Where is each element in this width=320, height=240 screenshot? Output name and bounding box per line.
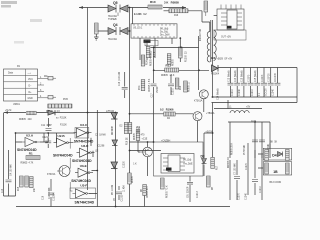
svg-text:C1CF30: C1CF30 [269, 73, 271, 82]
svg-text:05 58 WK: 05 58 WK [244, 144, 246, 155]
svg-text:Ds_DdL: Ds_DdL [160, 32, 169, 34]
svg-text:MG: MG [44, 76, 48, 78]
svg-text:C1210: C1210 [260, 186, 262, 193]
svg-text:R0805 1.5 K: R0805 1.5 K [149, 78, 151, 91]
svg-text:C1298: C1298 [98, 146, 105, 148]
svg-text:R0805 11: R0805 11 [188, 81, 190, 92]
svg-text:CCC30: CCC30 [266, 88, 268, 96]
svg-text:C4 100 WK: C4 100 WK [11, 164, 13, 176]
svg-text:U3-F: U3-F [80, 183, 87, 187]
svg-text:CCCF30: CCCF30 [275, 72, 277, 82]
svg-text:C1220A: C1220A [53, 192, 56, 201]
svg-text:C16: C16 [43, 195, 45, 200]
svg-text:+5v M: +5v M [5, 110, 11, 112]
svg-text:C17: C17 [152, 93, 154, 98]
svg-text:3 K R0805: 3 K R0805 [164, 1, 179, 5]
svg-text:U2.A: U2.A [26, 134, 34, 138]
svg-text:SN74HC04D: SN74HC04D [53, 153, 73, 157]
svg-text:C1210: C1210 [232, 89, 234, 96]
svg-text:C10 10 MK: C10 10 MK [49, 187, 51, 199]
svg-text:E-1208 0.2: E-1208 0.2 [134, 14, 147, 16]
svg-text:11 KM: 11 KM [124, 185, 126, 192]
svg-text:USB-U: USB-U [13, 104, 20, 106]
svg-text:C1240: C1240 [239, 89, 241, 96]
svg-text:C8 | 2200P: C8 | 2200P [188, 186, 190, 198]
svg-text:U2.B: U2.B [58, 134, 66, 138]
svg-text:R13: R13 [166, 64, 172, 68]
svg-text:TV35EB: TV35EB [108, 19, 117, 21]
svg-text:U3-E: U3-E [80, 164, 87, 168]
svg-text:SN74HC04D: SN74HC04D [72, 159, 92, 163]
svg-text:U4: U4 [167, 167, 171, 171]
svg-text:9R_(3d): 9R_(3d) [183, 160, 192, 162]
svg-text:R0805 240: R0805 240 [19, 119, 32, 121]
svg-text:Data: Data [8, 72, 14, 75]
svg-text:C2 18 MK: C2 18 MK [95, 135, 106, 137]
svg-text:R1208 22: R1208 22 [186, 51, 188, 62]
svg-text:C7 100 WK: C7 100 WK [235, 163, 237, 175]
svg-text:U6: U6 [144, 39, 148, 43]
svg-text:C1CF3: C1CF3 [262, 74, 264, 82]
svg-text:BK 5K: BK 5K [270, 142, 278, 144]
svg-text:C16 | 100 AM: C16 | 100 AM [118, 72, 121, 86]
svg-text:R1: R1 [29, 152, 33, 156]
svg-text:B6: B6 [211, 56, 215, 60]
svg-text:D4: D4 [272, 154, 276, 158]
svg-text:Q5: Q5 [113, 1, 118, 5]
svg-text:R16: R16 [174, 15, 179, 17]
svg-text:C15 (Weld): C15 (Weld) [255, 70, 257, 82]
svg-text:Yes_DdE: Yes_DdE [183, 164, 193, 166]
svg-text:1 K: 1 K [133, 164, 137, 166]
svg-text:R7C: R7C [139, 85, 141, 90]
svg-text:R1H: R1H [147, 60, 149, 65]
svg-text:US_D0.1: US_D0.1 [133, 28, 143, 30]
svg-text:BKJ CONN: BKJ CONN [270, 182, 282, 184]
svg-text:R0805 470: R0805 470 [147, 186, 149, 198]
svg-text:C1240: C1240 [272, 89, 274, 96]
svg-text:R0805 4.7K: R0805 4.7K [21, 163, 34, 165]
svg-text:C1220: C1220 [122, 194, 124, 201]
svg-text:C1210: C1210 [173, 88, 175, 95]
svg-text:C1240: C1240 [246, 193, 248, 200]
svg-text:+TB02A: +TB02A [206, 112, 215, 115]
svg-text:R0805 25 K: R0805 25 K [161, 75, 175, 77]
svg-text:KT315A: KT315A [47, 173, 56, 176]
svg-text:1520P: 1520P [157, 86, 159, 93]
svg-text:R0805 TC K: R0805 TC K [167, 185, 169, 198]
svg-text:C15 (Weld): C15 (Weld) [242, 70, 244, 82]
svg-text:+5V: +5V [246, 107, 251, 109]
svg-text:SN74HC04D: SN74HC04D [75, 200, 95, 204]
svg-text:KT361A: KT361A [194, 100, 203, 103]
svg-text:C1270: C1270 [246, 163, 248, 170]
svg-text:su F313K: su F313K [56, 118, 67, 120]
svg-text:C13: C13 [2, 188, 4, 193]
svg-text:C12 (Weld): C12 (Weld) [228, 70, 230, 82]
svg-text:C1210: C1210 [252, 89, 254, 96]
svg-text:DR/DNB: DR/DNB [112, 126, 114, 135]
svg-text:R0805: R0805 [132, 176, 134, 183]
svg-text:INDUCTOR: INDUCTOR [200, 29, 202, 41]
svg-text:Dm_DdN: Dm_DdN [160, 35, 170, 37]
svg-text:F313K: F313K [60, 125, 67, 127]
svg-text:—○: —○ [28, 72, 32, 75]
svg-text:C14 (Weld): C14 (Weld) [218, 88, 220, 100]
svg-text:OUT +2N: OUT +2N [221, 37, 231, 39]
svg-text:C1270: C1270 [239, 193, 241, 200]
svg-text:C13 (Weld): C13 (Weld) [235, 70, 237, 82]
svg-text:PCB: PCB [63, 99, 68, 101]
svg-text:R0805: R0805 [134, 133, 136, 140]
svg-text:R2: R2 [136, 126, 140, 130]
svg-text:U3-D: U3-D [81, 144, 89, 148]
svg-text:D5 11 KM: D5 11 KM [112, 185, 114, 195]
svg-text:C1220: C1220 [124, 161, 126, 168]
svg-text:M0805 2 K: M0805 2 K [228, 156, 230, 168]
svg-text:R14: R14 [180, 85, 182, 90]
svg-text:C1CF0: C1CF0 [248, 74, 250, 82]
svg-text:1B: 1B [273, 170, 278, 174]
svg-text:R15: R15 [18, 186, 20, 191]
svg-text:Q4: Q4 [113, 23, 118, 27]
svg-text:0.2 R1006: 0.2 R1006 [160, 108, 174, 112]
svg-text:SN74HC04D: SN74HC04D [17, 148, 37, 152]
svg-text:R16 2E: R16 2E [127, 137, 129, 145]
svg-text:HGC/DA: HGC/DA [108, 38, 117, 41]
svg-text:C1218: C1218 [42, 137, 49, 139]
svg-text:GND: GND [28, 98, 33, 100]
svg-text:U3-C: U3-C [80, 123, 88, 127]
svg-text:4.7 K: 4.7 K [154, 51, 156, 57]
svg-text:C1213: C1213 [197, 191, 199, 198]
svg-text:+5829 GF +5V: +5829 GF +5V [217, 59, 233, 61]
svg-text:C11 388P: C11 388P [41, 125, 52, 127]
svg-text:R17: R17 [217, 165, 219, 170]
svg-text:HGC/DA: HGC/DA [108, 15, 117, 18]
svg-text:R0805 4.7 K: R0805 4.7 K [150, 53, 152, 66]
svg-text:+C1E: +C1E [142, 138, 148, 140]
svg-text:R10: R10 [150, 0, 156, 4]
svg-text:R0805 25 K: R0805 25 K [232, 142, 234, 155]
svg-text:R0805: R0805 [173, 59, 175, 66]
svg-text:VCC: VCC [28, 79, 33, 81]
svg-text:9R_(8d): 9R_(8d) [160, 29, 169, 31]
